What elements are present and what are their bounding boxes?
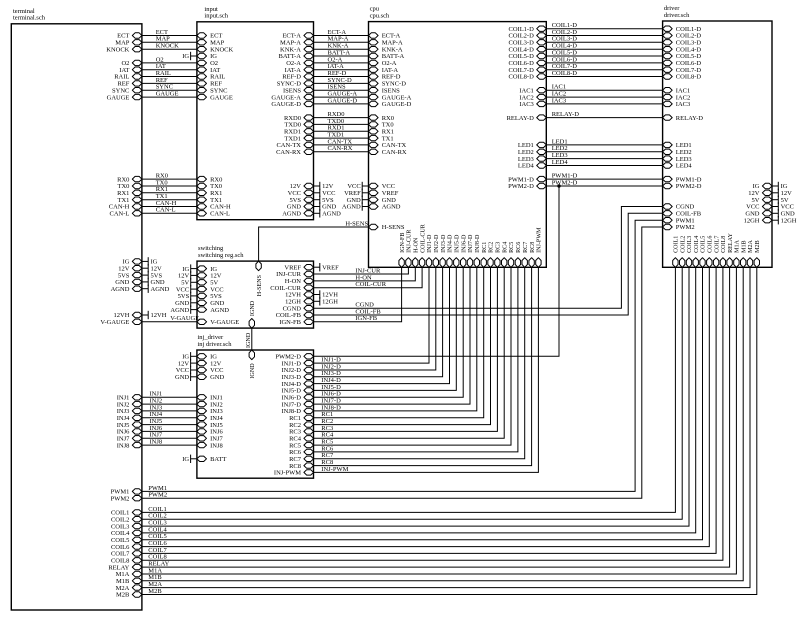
svg-text:H-SENS: H-SENS (257, 274, 263, 296)
wire IAT (142, 63, 197, 70)
sheet pin GND (115, 279, 142, 286)
svg-text:RELAY: RELAY (728, 233, 734, 253)
sheet pin COIL3-D (663, 40, 702, 47)
wire RX1 (142, 186, 197, 193)
svg-text:RELAY-D: RELAY-D (552, 111, 580, 118)
wire INJ7 (142, 432, 197, 439)
sheet pin CAN-H (197, 204, 231, 211)
svg-text:RC1: RC1 (482, 242, 488, 253)
sheet name inj_driver (198, 334, 233, 348)
sheet pin COIL2 (111, 516, 142, 523)
sheet pin TX0 (197, 183, 222, 190)
sheet pin IAC1 (519, 87, 546, 94)
wire KNOCK (142, 43, 197, 50)
sheet pin COIL1-D (509, 26, 547, 33)
sheet pin RXD0 (284, 115, 313, 122)
sheet pin CGND (283, 305, 314, 312)
wire BATT-A (314, 49, 369, 56)
svg-text:IGN-FB: IGN-FB (400, 233, 406, 253)
hier label AGND (342, 202, 369, 210)
wire INJ3 (142, 404, 197, 411)
sheet pin IAT-A (369, 67, 399, 74)
sheet pin 5VS (289, 197, 313, 204)
wire RC8 (314, 267, 532, 466)
sheet pin RC2 (488, 242, 495, 268)
svg-text:H-ON: H-ON (414, 237, 420, 253)
sheet pin INJ7 (117, 436, 142, 443)
svg-text:INJ4-D: INJ4-D (448, 234, 454, 253)
wire COIL6 (142, 267, 709, 547)
wire INJ7-D (314, 267, 471, 404)
sheet pin TXD1 (284, 135, 313, 142)
sheet pin INJ4 (117, 415, 142, 422)
sheet pin M2B (754, 240, 761, 267)
wire IGN-FB (314, 267, 402, 322)
sheet pin INJ6-D (282, 395, 314, 402)
sheet pin IAC2 (663, 94, 691, 101)
sheet pin PWM2-D (663, 183, 702, 190)
svg-text:INJ-PWM: INJ-PWM (537, 227, 543, 253)
svg-text:12VH: 12VH (151, 312, 167, 319)
svg-text:INJ-PWM: INJ-PWM (321, 466, 348, 473)
sheet pin GND (197, 300, 225, 307)
svg-text:GAUGE-D: GAUGE-D (271, 101, 301, 108)
hier label 5V (181, 278, 197, 286)
sheet pin INJ-PWM (274, 470, 314, 477)
svg-text:M2B: M2B (755, 240, 761, 253)
sheet pin PWM2 (111, 495, 142, 502)
svg-text:CAN-RX: CAN-RX (382, 149, 407, 156)
sheet pin GAUGE-A (369, 94, 412, 101)
sheet pin IG (753, 183, 772, 190)
wire COIL-FB (314, 213, 663, 315)
sheet pin M1A (734, 239, 741, 267)
sheet pin RC8 (529, 242, 536, 268)
hier label VREF (314, 263, 340, 271)
wire INJ-PWM (314, 267, 539, 473)
wire COIL7-D (546, 63, 662, 70)
sheet pin BATT (197, 456, 226, 463)
sheet pin H-ON (413, 237, 420, 267)
sheet pin 5V (197, 280, 218, 287)
svg-text:IGND: IGND (246, 332, 252, 348)
wire INJ1 (142, 391, 197, 398)
sheet pin RX0 (369, 115, 394, 122)
sheet pin 12VH (285, 292, 313, 299)
sheet pin ECT (117, 33, 142, 40)
sheet pin GND (287, 204, 314, 211)
sheet pin RC4 (502, 242, 509, 268)
sheet pin INJ2-D (433, 234, 440, 267)
sheet pin INJ7 (197, 436, 224, 443)
svg-text:RC7: RC7 (523, 242, 529, 253)
svg-text:CAN-L: CAN-L (156, 207, 176, 214)
svg-text:AGND: AGND (151, 286, 170, 293)
wire INJ8 (142, 439, 197, 446)
svg-text:V-GAUGE: V-GAUGE (170, 315, 199, 322)
svg-text:COIL1: COIL1 (674, 236, 680, 253)
sheet pin COIL5 (700, 236, 707, 268)
svg-text:cpu.sch: cpu.sch (370, 12, 390, 19)
sheet pin IAT (119, 67, 142, 74)
sheet pin COIL2-D (663, 33, 702, 40)
wire PWM1-D (546, 173, 662, 180)
sheet pin GAUGE-A (271, 94, 313, 101)
sheet pin RC5 (289, 442, 313, 449)
svg-text:input.sch: input.sch (204, 13, 228, 20)
sheet driver (driver.sch) (663, 21, 772, 267)
sheet pin KNOCK (106, 46, 142, 53)
sheet pin COIL3-D (509, 40, 547, 47)
sheet pin GND (745, 211, 772, 218)
sheet pin CAN-H (109, 204, 142, 211)
hier label 5V (772, 196, 789, 204)
wire PWM2-D (inj to cpu/driver net) (314, 186, 560, 356)
sheet name cpu (370, 6, 390, 20)
hier label IG (142, 257, 158, 265)
sheet pin REF (197, 81, 223, 88)
svg-text:IG: IG (210, 53, 217, 60)
svg-text:COIL8-D: COIL8-D (676, 74, 702, 81)
wire RC6 (314, 267, 518, 452)
wire M1A (142, 267, 737, 574)
wire INJ5-D (314, 267, 457, 391)
wire PWM2 (142, 227, 663, 499)
sheet pin INJ4 (197, 415, 224, 422)
sheet pin REF (117, 81, 141, 88)
wire PWM2-D (546, 179, 662, 186)
sheet pin TX0 (117, 183, 141, 190)
sheet inj_driver (inj driver.sch) (197, 350, 314, 478)
wire IAT-A (314, 63, 369, 70)
hier label 12VH (142, 311, 167, 319)
sheet pin COIL-FB (276, 312, 314, 319)
sheet pin COIL7 (713, 236, 720, 268)
hier label 12V (314, 182, 334, 190)
sheet pin INJ5 (197, 422, 223, 429)
wire RXD1 (314, 125, 369, 132)
wire INJ4 (142, 411, 197, 418)
svg-text:H-SENS: H-SENS (345, 220, 368, 227)
wire H-SENS (259, 220, 369, 261)
sheet pin H-SENS (256, 261, 263, 296)
sheet pin IAT-A (285, 67, 314, 74)
wire LED3 (546, 152, 662, 159)
wire REF (142, 77, 197, 84)
svg-text:COIL6: COIL6 (708, 236, 714, 253)
hier label 12V (772, 189, 792, 197)
sheet pin CAN-L (197, 211, 230, 218)
sheet pin INJ3 (117, 408, 142, 415)
sheet pin INJ3 (197, 408, 223, 415)
wire RC7 (314, 267, 525, 459)
svg-text:INJ2-D: INJ2-D (434, 234, 440, 253)
svg-text:PWM2: PWM2 (676, 224, 695, 231)
sheet pin RC7 (522, 242, 529, 268)
sheet pin INJ-CUR (406, 229, 413, 268)
svg-text:IAC3: IAC3 (676, 101, 690, 108)
wire COIL7 (142, 267, 716, 554)
svg-text:M1A: M1A (735, 239, 741, 252)
hier label VREF (344, 189, 368, 197)
svg-text:switching reg.sch: switching reg.sch (198, 252, 244, 259)
svg-text:V-GAUGE: V-GAUGE (100, 319, 129, 326)
svg-text:INJ5-D: INJ5-D (455, 234, 461, 253)
wire V-GAUGE (142, 315, 199, 322)
sheet pin RC5 (508, 242, 515, 268)
sheet pin PWM2-D (508, 183, 546, 190)
sheet pin COIL5-D (663, 53, 702, 60)
svg-text:RC6: RC6 (516, 242, 522, 253)
sheet pin COIL6 (111, 544, 142, 551)
sheet pin LED2 (518, 149, 546, 156)
sheet pin GAUGE (107, 94, 142, 101)
sheet pin INJ8 (197, 442, 223, 449)
svg-text:IGN-FB: IGN-FB (279, 319, 301, 326)
svg-text:COIL2: COIL2 (680, 236, 686, 253)
svg-text:INJ8: INJ8 (150, 439, 163, 446)
sheet pin TX1 (369, 135, 394, 142)
sheet pin 12VH (114, 312, 142, 319)
junction PWM2-D (557, 184, 560, 187)
svg-text:AGND: AGND (170, 307, 189, 314)
sheet pin O2 (121, 60, 141, 67)
svg-text:IG: IG (182, 456, 189, 463)
sheet pin COIL-CUR (270, 285, 313, 292)
wire M1B (142, 267, 743, 581)
sheet pin IG (123, 259, 142, 266)
sheet pin 5V (752, 197, 772, 204)
svg-text:PWM2: PWM2 (148, 492, 167, 499)
svg-text:AGND: AGND (382, 204, 401, 211)
sheet pin KNOCK (197, 46, 234, 53)
sheet pin INJ3-D (440, 234, 447, 267)
wire COIL3 (142, 267, 689, 526)
sheet pin 12GH (285, 299, 313, 306)
wire INJ5 (142, 418, 197, 425)
svg-text:M2A: M2A (748, 239, 754, 252)
sheet pin INJ4-D (447, 234, 454, 267)
sheet pin KNK-A (280, 46, 313, 53)
wire CAN-TX (314, 138, 369, 145)
sheet pin INJ1 (197, 395, 223, 402)
sheet pin INJ2 (117, 401, 142, 408)
sheet pin RELAY (108, 564, 142, 571)
sheet pin INJ5-D (454, 234, 461, 267)
sheet pin INJ-CUR (276, 271, 313, 278)
sheet pin CGND (663, 204, 695, 211)
hier label GND (142, 278, 165, 286)
sheet pin VCC (288, 190, 314, 197)
svg-text:IAC3: IAC3 (552, 97, 566, 104)
wire COIL5 (142, 267, 703, 540)
hier label GND (175, 373, 197, 381)
wire COIL5-D (546, 49, 662, 56)
sheet pin IAC2 (519, 94, 546, 101)
wire REF-D (314, 70, 369, 77)
hier label 12GH (314, 297, 339, 305)
sheet pin AGND (369, 204, 401, 211)
sheet pin IAC1 (663, 87, 691, 94)
svg-text:INJ8: INJ8 (210, 442, 223, 449)
sheet pin MAP (115, 40, 142, 47)
wire RXD0 (314, 111, 369, 118)
wire CGND (314, 207, 663, 309)
sheet pin V-GAUGE (197, 319, 239, 326)
sheet pin COIL8-D (663, 74, 702, 81)
svg-text:LED4: LED4 (518, 163, 535, 170)
sheet pin M2A (747, 239, 754, 267)
sheet pin IG (197, 354, 217, 361)
hier label IG (182, 455, 197, 463)
hier label AGND (170, 305, 197, 313)
sheet pin LED2 (663, 149, 692, 156)
wire MAP (142, 36, 197, 43)
hier label VCC (347, 182, 368, 190)
wire INJ1-D (314, 267, 430, 363)
wire GAUGE (142, 91, 197, 98)
wire LED4 (546, 159, 662, 166)
sheet name input (204, 6, 228, 20)
svg-text:RC5: RC5 (509, 242, 515, 253)
wire SYNC (142, 84, 197, 91)
svg-text:LED4: LED4 (552, 159, 569, 166)
sheet pin ECT-A (369, 33, 401, 40)
sheet pin VCC (197, 286, 224, 293)
svg-text:AGND: AGND (210, 307, 229, 314)
hier label GND (772, 209, 795, 217)
hier label GND (347, 196, 369, 204)
sheet pin REF-D (369, 74, 401, 81)
svg-text:INJ-CUR: INJ-CUR (407, 229, 413, 253)
hier label AGND (142, 285, 170, 293)
svg-text:inj driver.sch: inj driver.sch (198, 341, 233, 348)
svg-text:PWM2-D: PWM2-D (508, 183, 534, 190)
sheet pin RX1 (369, 129, 394, 136)
hier label GND (314, 202, 337, 210)
hier label IG (182, 352, 197, 360)
sheet pin RX0 (197, 176, 222, 183)
sheet cpu (cpu.sch) (369, 22, 547, 268)
svg-text:terminal.sch: terminal.sch (13, 15, 46, 22)
sheet pin M2B (116, 592, 142, 599)
sheet pin COIL1-D (663, 26, 702, 33)
sheet pin COIL8 (720, 236, 727, 268)
sheet pin RC1 (481, 242, 488, 268)
sheet pin TX0 (369, 122, 394, 129)
sheet pin RX1 (197, 190, 222, 197)
sheet pin INJ5-D (282, 388, 314, 395)
wire TX0 (142, 179, 197, 186)
svg-text:AGND: AGND (282, 211, 301, 218)
wire RAIL (142, 70, 197, 77)
sheet pin VCC (197, 367, 224, 374)
sheet pin PWM1-D (663, 176, 702, 183)
wire SYNC-D (314, 77, 369, 84)
wire COIL1 (142, 267, 676, 513)
sheet pin COIL6-D (509, 60, 547, 67)
sheet pin RELAY (727, 233, 734, 268)
svg-text:INJ-PWM: INJ-PWM (274, 470, 301, 477)
sheet pin GND (197, 374, 225, 381)
sheet pin CAN-TX (276, 142, 313, 149)
wire ISENS (314, 84, 369, 91)
sheet input (input.sch) (197, 22, 314, 220)
sheet pin COIL4-D (663, 46, 702, 53)
svg-text:IAC3: IAC3 (519, 101, 533, 108)
wire H-ON (314, 267, 416, 281)
svg-text:GND: GND (175, 374, 189, 381)
svg-text:RC2: RC2 (489, 242, 495, 253)
wire RC5 (314, 267, 512, 445)
svg-text:RC3: RC3 (496, 242, 502, 253)
sheet pin COIL7-D (509, 67, 547, 74)
sheet pin LED3 (663, 156, 692, 163)
sheet pin ECT-A (282, 33, 313, 40)
sheet pin SYNC (112, 87, 142, 94)
sheet pin COIL1 (673, 236, 680, 268)
wire KNK-A (314, 43, 369, 50)
wire RC4 (314, 267, 505, 438)
sheet pin CAN-TX (369, 142, 407, 149)
sheet pin TX1 (197, 197, 222, 204)
sheet pin INJ1-D (426, 234, 433, 267)
sheet pin M1A (116, 571, 142, 578)
sheet pin IAC3 (663, 101, 691, 108)
svg-text:CAN-RX: CAN-RX (328, 145, 353, 152)
wire INJ6-D (314, 267, 464, 397)
sheet pin VCC (369, 183, 396, 190)
svg-text:GAUGE-D: GAUGE-D (328, 97, 358, 104)
sheet pin M1B (741, 240, 748, 267)
sheet pin RC8 (289, 463, 313, 470)
svg-text:CAN-L: CAN-L (110, 211, 130, 218)
sheet pin RC2 (289, 422, 313, 429)
sheet pin IAC3 (519, 101, 546, 108)
hier label 12VH (314, 290, 339, 298)
sheet pin PWM2-D (275, 354, 313, 361)
sheet pin ECT (197, 33, 223, 40)
wire RC2 (314, 267, 491, 425)
wire COIL3-D (546, 36, 662, 43)
sheet pin 12V (290, 183, 314, 190)
sheet pin COIL7 (111, 551, 142, 558)
sheet pin COIL8-D (509, 74, 547, 81)
sheet pin 5VS (197, 293, 222, 300)
sheet pin CAN-RX (369, 149, 407, 156)
svg-text:M2B: M2B (148, 588, 162, 595)
sheet pin VCC (746, 204, 772, 211)
sheet pin BATT-A (278, 53, 313, 60)
sheet pin GND (369, 197, 397, 204)
sheet pin RELAY-D (507, 115, 547, 122)
wire M2A (142, 267, 750, 588)
wire CAN-H (142, 200, 197, 207)
sheet pin RXD1 (284, 129, 313, 136)
sheet pin O2 (197, 60, 218, 67)
wire COIL4-D (546, 43, 662, 50)
hier label 12V (142, 264, 162, 272)
wire COIL-CUR (314, 267, 423, 288)
sheet pin TXD0 (284, 122, 313, 129)
wire RX0 (142, 173, 197, 180)
wire COIL8 (142, 267, 723, 560)
sheet pin RC7 (289, 456, 313, 463)
sheet pin AGND (197, 307, 229, 314)
sheet pin 12V (197, 273, 222, 280)
svg-text:H-SENS: H-SENS (382, 224, 405, 231)
sheet pin COIL-FB (663, 211, 702, 218)
